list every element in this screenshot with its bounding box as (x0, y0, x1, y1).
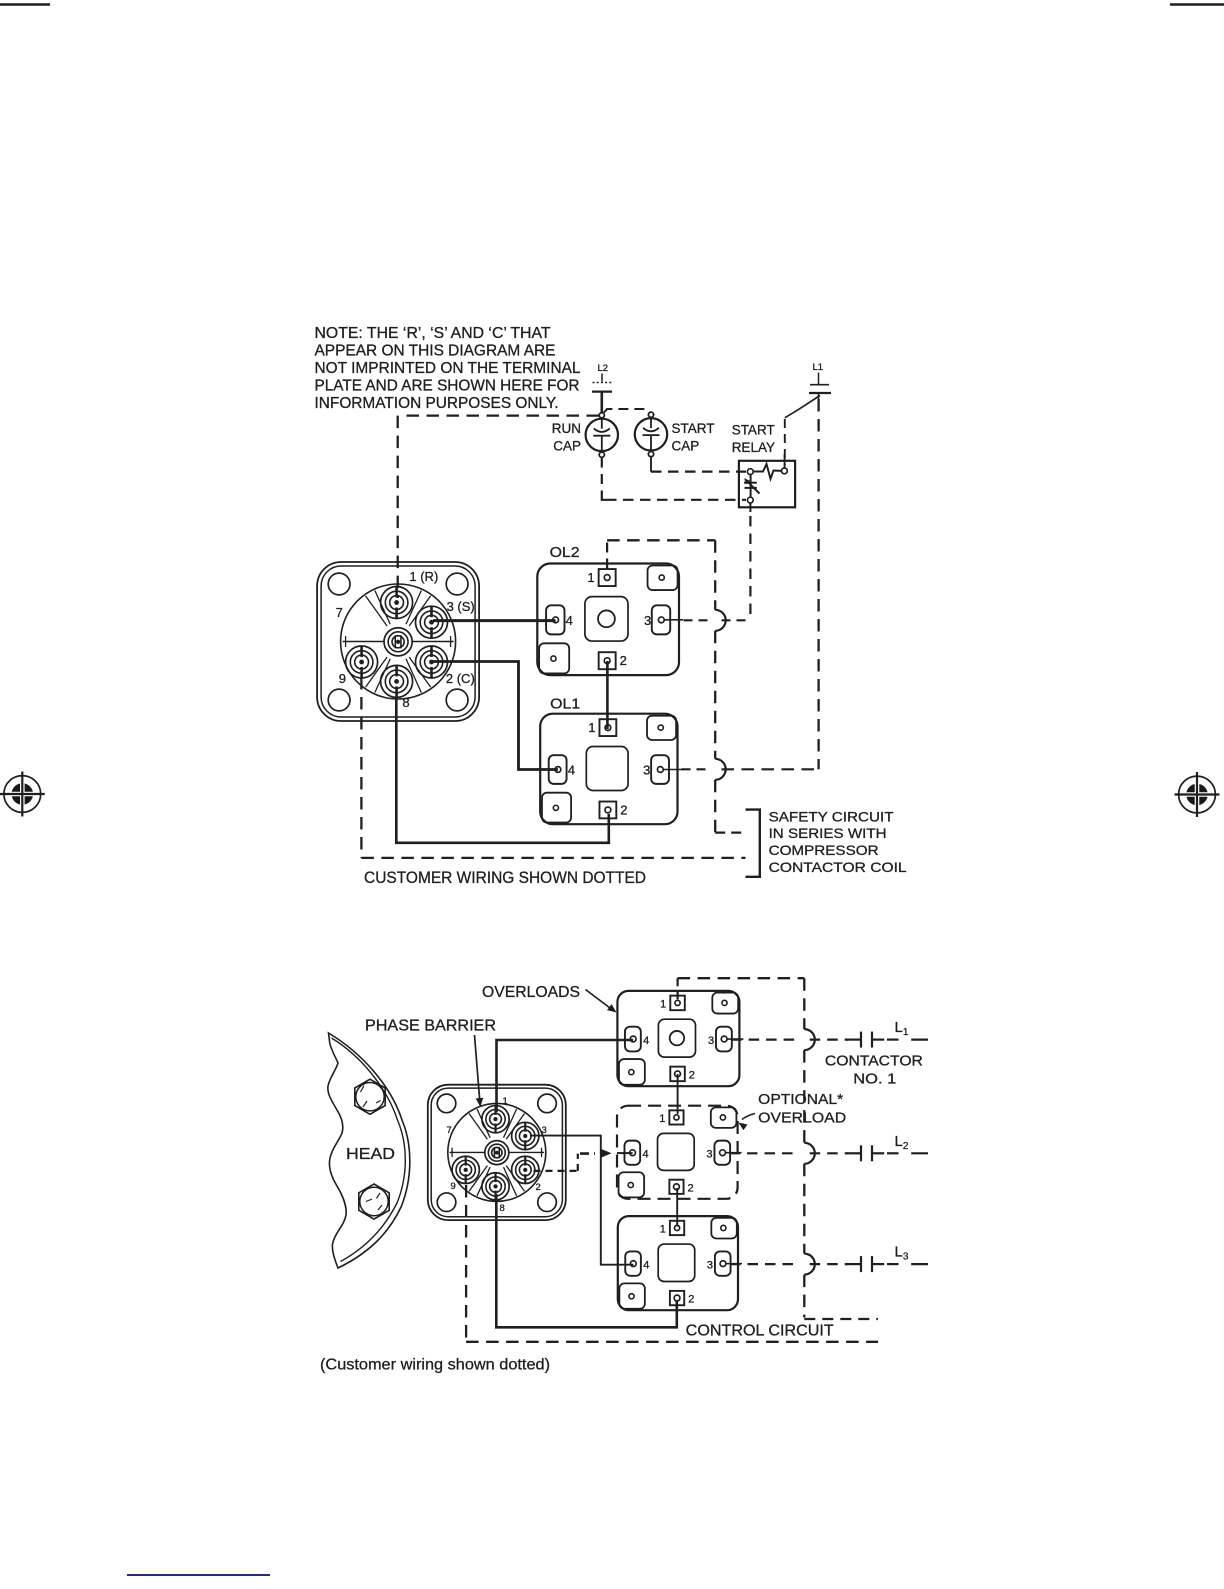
pointer overloads arrow (586, 990, 613, 1010)
wire OL-A pin2 to OL-B pin1 (677, 1074, 679, 1114)
wire dashed left from RUN junction (399, 414, 599, 416)
left registration mark (4, 776, 41, 813)
wire row L2 dashed (730, 1152, 799, 1154)
pointer optional overload arrow (742, 1114, 755, 1120)
wire L1 diagonal to start relay (785, 396, 820, 418)
wire plate pin2 to OL1 pin4 (433, 662, 558, 770)
relay terminal top-right (782, 468, 788, 474)
arrow tap into OL-B pin4 (601, 1152, 604, 1154)
wire plate pin3 to OL2 pin4 (433, 619, 556, 622)
wire plate pin3 down to OL-C pin4 (530, 1136, 633, 1265)
overload OL2 (537, 564, 679, 676)
head casting shape (328, 1033, 410, 1268)
wire relay top-right to L1 (784, 454, 786, 468)
wire plate pin2 dash-dot to OL-B pin4 (534, 1170, 578, 1172)
wire plate pin1 up to OL-A pin4 (497, 1040, 634, 1112)
wire plate pin8 to OL-C pin2 (496, 1194, 677, 1327)
wire dashed bridge RUN to START cap (604, 409, 650, 413)
relay terminal bottom-left (747, 497, 753, 503)
contact L2 (860, 1145, 862, 1161)
wire OL-B pin2 to OL-C pin1 (676, 1188, 678, 1227)
wire OL1 pin3 row dashed to L1 (682, 768, 710, 770)
capacitor START CAP (635, 418, 667, 450)
relay terminal top-left (747, 469, 753, 475)
terminal L1 symbol (818, 373, 820, 385)
contact L1 (860, 1032, 862, 1048)
wire control circuit dashed bottom right (804, 1318, 878, 1320)
overload block middle OPTIONAL (OL-B) dashed (617, 1106, 738, 1199)
bracket safety circuit (746, 810, 760, 877)
terminal plate (motor) (317, 562, 479, 721)
contact L3 (860, 1256, 862, 1272)
terminal plate (lower) (428, 1085, 566, 1220)
overload block bottom (OL-C) (618, 1216, 738, 1310)
wire OL2 pin2 to OL1 pin1 (606, 661, 609, 729)
wire relay bottom lead dashed to OL2-3 (749, 503, 751, 512)
head bolt bottom (359, 1184, 389, 1219)
overload OL1 (540, 714, 677, 825)
wire stub into OL-B pin4 (617, 1152, 633, 1154)
wire L2 lead down (600, 392, 603, 413)
wire START cap to relay (dashed) (650, 457, 652, 472)
wire plate pin9 dashed down (360, 677, 362, 858)
pointer phase barrier arrow (475, 1035, 480, 1100)
wire OL2 pin3 row dashed (684, 619, 710, 621)
wire row L1 dashed (731, 1038, 799, 1040)
capacitor RUN CAP (586, 419, 618, 451)
wire RUN cap to relay (dashed) (601, 458, 603, 497)
wire plate pin9 dashed customer bottom (465, 1185, 467, 1342)
relay coil zigzag (753, 464, 781, 479)
wire OL2 pin1 dashed loop (606, 540, 608, 568)
wire plate pin8 to OL1 pin2 (396, 697, 609, 843)
top-right crop bar (1170, 3, 1224, 6)
wire row L3 dashed (730, 1263, 799, 1265)
terminal L2 symbol (601, 374, 603, 382)
wire control circuit dashed vertical (803, 978, 805, 1029)
wire control circuit dashed top (678, 977, 805, 979)
relay START RELAY box (739, 461, 795, 508)
relay contact (adjustable) (750, 475, 752, 498)
head bolt top (355, 1079, 385, 1114)
wire dashed vertical (safety) with hops (714, 540, 716, 610)
top-left crop bar (0, 3, 50, 6)
wire L1 bus dashed down (817, 399, 819, 769)
right registration mark (1179, 776, 1216, 813)
wire dashed down to plate pin 1 (397, 416, 399, 598)
overload block top (OL-A) (617, 991, 739, 1086)
wire customer dashed bottom (361, 857, 745, 859)
